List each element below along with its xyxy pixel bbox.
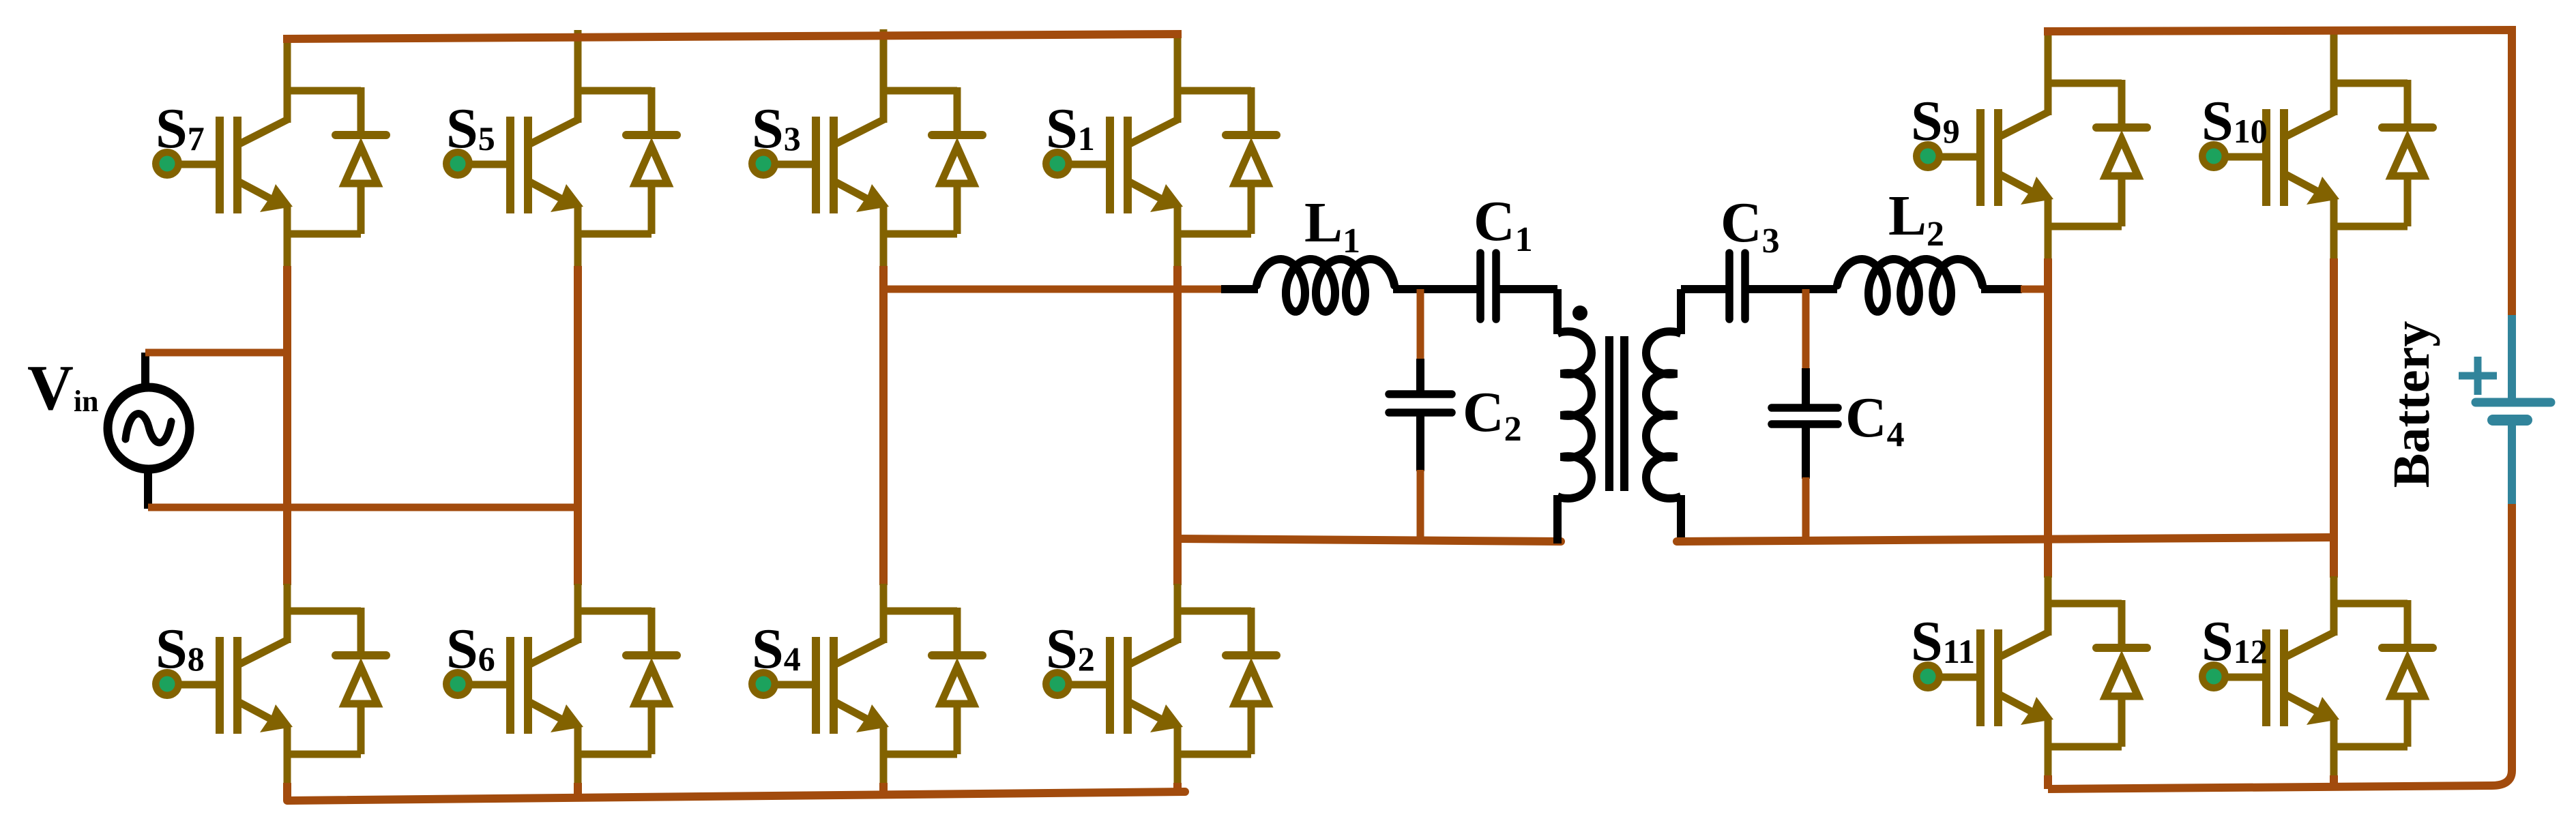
anti-parallel diode of S3 [883, 87, 982, 234]
wire: leg 2 midpoint vertical [574, 266, 582, 585]
wire: leg 2 collector stub (top) [574, 30, 582, 95]
wire: leg 4 collector stub (top) [1174, 35, 1182, 95]
wire: leg 4 upper emitter segment [1174, 206, 1182, 267]
wire: leg 6 lower emitter segment [2330, 719, 2338, 777]
transformer primary top lead [1553, 289, 1562, 334]
anti-parallel diode of S10 [2334, 80, 2433, 226]
transistor S8 (IGBT) [167, 611, 293, 734]
wire: transformer secondary to C3 [1681, 285, 1727, 293]
wire: C2 branch upper (node to C2) [1417, 289, 1424, 360]
battery plus sign [2459, 357, 2497, 395]
capacitor C3 [1729, 253, 1745, 319]
battery positive plate [2476, 398, 2551, 407]
wire: transformer secondary bottom rail to leg 6 midpoint [1677, 537, 2334, 541]
wire: leg 5 lower emitter segment [2045, 719, 2052, 777]
battery negative lead (teal) [2508, 423, 2516, 504]
wire: leg 1 lower emitter segment [284, 726, 291, 784]
transformer primary winding [1557, 331, 1592, 498]
gate terminal dot of S10 [2199, 141, 2229, 171]
wire: Vin + to leg 1 midpoint [145, 349, 289, 357]
wire: leg 2 to bottom bus [574, 783, 582, 798]
wire: leg 4 lower emitter segment [1174, 726, 1182, 784]
capacitor C2 [1389, 394, 1452, 413]
wire: leg 3 lower emitter segment [880, 726, 888, 784]
transformer primary bottom lead [1553, 495, 1562, 543]
wire: bottom DC bus of output bridge to battery - [2048, 501, 2512, 789]
transistor S2 (IGBT) [1057, 611, 1183, 734]
wire: top DC bus of input bridge [283, 34, 1182, 39]
wire: leg 3 to bottom bus [879, 783, 888, 794]
transistor S1 (IGBT) [1057, 91, 1183, 213]
wire: leg 3 midpoint to L1 [883, 286, 1226, 293]
transformer secondary bottom lead [1677, 495, 1685, 543]
transistor S3 (IGBT) [763, 91, 889, 213]
wire: leg 1 midpoint vertical [283, 266, 291, 585]
gate terminal dot of S11 [1913, 661, 1943, 691]
wire: leg 5 to bottom bus [2044, 775, 2052, 789]
inductor L1 [1257, 259, 1394, 312]
transformer secondary top lead [1677, 289, 1685, 334]
wire: top DC bus of output bridge to battery + [2044, 30, 2512, 318]
anti-parallel diode of S6 [578, 608, 677, 754]
inductor L2 [1837, 259, 1982, 312]
transformer polarity dot [1572, 306, 1587, 321]
wire: C1 to transformer primary [1499, 285, 1557, 293]
wire: leg 6 to bottom bus [2330, 775, 2338, 786]
gate terminal dot of S6 [443, 669, 473, 699]
gate terminal dot of S7 [152, 149, 182, 179]
wire: C4 branch upper [1802, 289, 1810, 370]
AC source Vin [108, 353, 190, 509]
gate terminal dot of S9 [1913, 141, 1943, 171]
wire: leg 1 collector stub (top) [284, 38, 291, 95]
transistor S12 (IGBT) [2214, 604, 2339, 726]
transistor S11 (IGBT) [1928, 604, 2053, 726]
wire: leg 4 midpoint to transformer primary bottom rail [1177, 539, 1561, 541]
wire: leg 6 lower collector stub [2330, 576, 2338, 636]
capacitor C1 [1480, 253, 1496, 319]
wire: leg 1 lower collector stub [284, 584, 291, 643]
transformer core [1609, 336, 1624, 491]
wire: L2 black lead right [1981, 285, 2022, 293]
wire: leg 3 lower collector stub [880, 584, 888, 643]
anti-parallel diode of S8 [287, 608, 386, 754]
wire: leg 2 lower emitter segment [574, 726, 582, 784]
wire: leg 5 midpoint vertical [2044, 258, 2052, 578]
wire: leg 5 upper emitter segment [2045, 198, 2052, 260]
battery negative plate [2493, 415, 2527, 426]
battery positive lead (teal) [2508, 315, 2516, 399]
wire: leg 4 to bottom bus [1173, 783, 1182, 792]
anti-parallel diode of S5 [578, 87, 677, 234]
anti-parallel diode of S1 [1177, 87, 1276, 234]
wire: Vin - to leg 2 midpoint [148, 504, 580, 511]
wire: leg 3 collector stub (top) [880, 29, 888, 95]
transistor S5 (IGBT) [458, 91, 583, 213]
gate terminal dot of S2 [1042, 669, 1072, 699]
transistor S7 (IGBT) [167, 91, 293, 213]
capacitor C4 [1772, 408, 1838, 424]
wire: leg 1 upper emitter segment [284, 206, 291, 267]
wire: C3 to C4 node and L2 [1748, 285, 1837, 293]
wire: leg 2 upper emitter segment [574, 206, 582, 267]
wire: leg 4 midpoint vertical [1173, 266, 1182, 585]
wire: black lead into L1 [1221, 285, 1258, 293]
anti-parallel diode of S11 [2048, 600, 2147, 747]
wire: leg 6 midpoint vertical [2330, 258, 2338, 578]
gate terminal dot of S12 [2199, 661, 2229, 691]
wire: leg 2 lower collector stub [574, 584, 582, 643]
gate terminal dot of S3 [748, 149, 778, 179]
transistor S10 (IGBT) [2214, 83, 2339, 206]
wire: C2 branch lower (C2 to bottom rail) [1416, 415, 1424, 471]
gate terminal dot of S4 [748, 669, 778, 699]
wire: C4 branch lower [1802, 427, 1810, 479]
svg-text:Battery: Battery [2383, 321, 2440, 488]
wire: leg 1 to bottom bus [283, 783, 291, 801]
transistor S6 (IGBT) [458, 611, 583, 734]
gate terminal dot of S8 [152, 669, 182, 699]
transistor S4 (IGBT) [763, 611, 889, 734]
transistor S9 (IGBT) [1928, 83, 2053, 206]
wire: leg 4 lower collector stub [1174, 584, 1182, 643]
transformer secondary winding [1646, 331, 1681, 498]
anti-parallel diode of S7 [287, 87, 386, 234]
wire: leg 6 upper emitter segment [2330, 198, 2338, 260]
anti-parallel diode of S2 [1177, 608, 1276, 754]
wire: L2 to leg 5 midpoint [2021, 286, 2049, 293]
wire: leg 3 midpoint vertical [879, 266, 888, 585]
wire: leg 3 upper emitter segment [880, 206, 888, 267]
wire: leg 6 collector stub (top) [2330, 31, 2338, 88]
wire: leg 5 collector stub (top) [2045, 33, 2052, 88]
anti-parallel diode of S9 [2048, 80, 2147, 226]
wire: bottom DC bus of input bridge [287, 792, 1185, 801]
anti-parallel diode of S4 [883, 608, 982, 754]
wire: leg 5 lower collector stub [2045, 576, 2052, 636]
wire: L1 to C1/C2 node [1393, 285, 1478, 293]
gate terminal dot of S1 [1042, 149, 1072, 179]
anti-parallel diode of S12 [2334, 600, 2433, 747]
gate terminal dot of S5 [443, 149, 473, 179]
